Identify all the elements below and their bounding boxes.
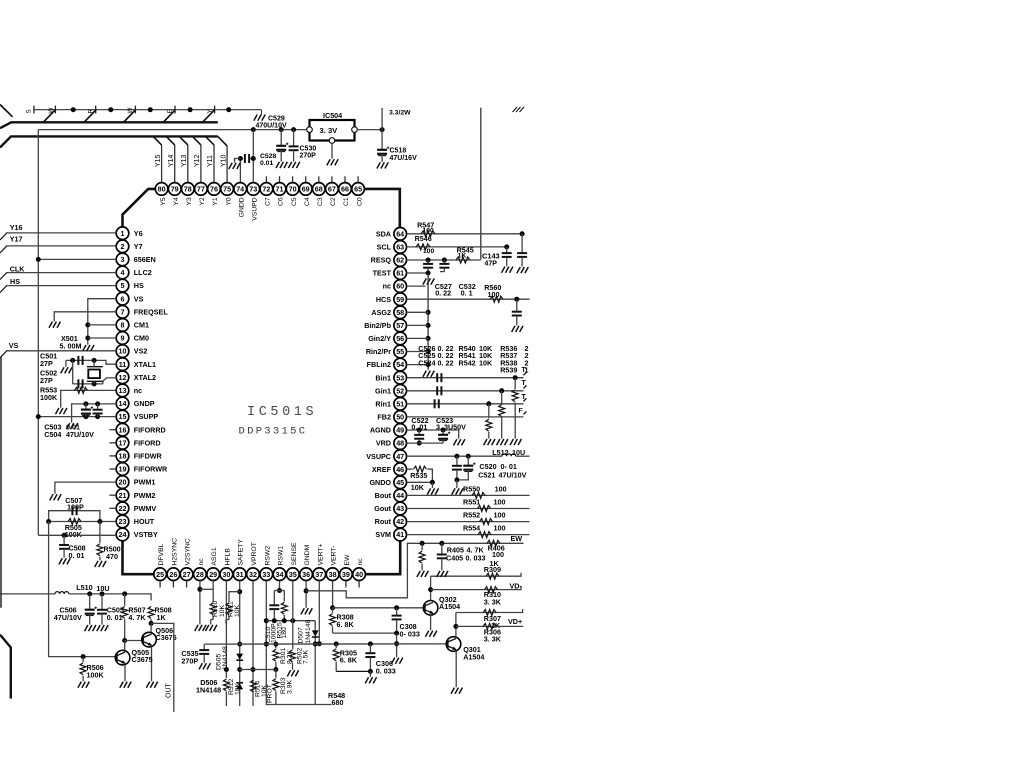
junction R301 bottom: [273, 667, 278, 672]
ground below IC504: [327, 159, 338, 165]
junction ladder pin55: [426, 349, 431, 354]
ground at right end of bus A: [254, 115, 265, 121]
wire C507 loop: [49, 511, 100, 522]
wire AGND pin49: [407, 430, 459, 439]
svg-text:0. 033: 0. 033: [466, 553, 486, 562]
pin 39: [340, 568, 353, 581]
svg-text:C6: C6: [278, 197, 285, 206]
svg-text:10U: 10U: [96, 584, 109, 593]
resistor R550 100: [472, 492, 485, 498]
pin 40: [353, 568, 366, 581]
wire vertical into pin 75: [226, 146, 228, 183]
svg-text:3. 3K: 3. 3K: [484, 635, 502, 644]
junction GNDD top: [238, 156, 243, 161]
ground below C535: [199, 663, 210, 669]
junction C306 bottom: [368, 669, 373, 674]
svg-text:SVM: SVM: [375, 530, 391, 539]
svg-text:R552: R552: [463, 511, 480, 520]
junction pin36: [304, 588, 309, 593]
pin 49: [394, 424, 407, 437]
wire R306 line: [456, 625, 523, 627]
resistor Gin1 pulldown (vertical): [499, 391, 505, 439]
svg-text:47U/10V: 47U/10V: [499, 470, 527, 479]
svg-text:VSUPD: VSUPD: [252, 197, 259, 221]
resistor R551 100: [478, 506, 491, 512]
pin 26 stub: [172, 581, 174, 588]
wire Rin2/Pr pin55: [407, 351, 429, 353]
svg-text:XTAL2: XTAL2: [134, 373, 156, 382]
svg-text:100P: 100P: [67, 503, 84, 512]
pin 13: [116, 384, 129, 397]
svg-text:71: 71: [276, 185, 284, 194]
svg-text:27P: 27P: [40, 359, 53, 368]
wire vertical into pin 76: [213, 145, 215, 183]
svg-text:68: 68: [315, 185, 323, 194]
junction R507 top: [122, 591, 127, 596]
svg-text:41: 41: [396, 530, 404, 539]
diode D506 1N4148: [236, 683, 243, 690]
wire pin24 VSTBY: [38, 534, 116, 536]
svg-text:14: 14: [119, 399, 127, 408]
resistor R303 3.9K (vertical): [273, 670, 279, 705]
ground below Q505: [120, 682, 131, 688]
bus entry diagonal A-B #5: [203, 110, 215, 123]
wire R305/C306 bottom bar: [336, 670, 370, 672]
svg-text:C5: C5: [291, 197, 298, 206]
junction C501 left: [70, 358, 75, 363]
svg-text:Y0: Y0: [225, 197, 232, 206]
resistor R545 1K: [456, 257, 470, 263]
wire pin9 CM0: [88, 337, 116, 339]
capacitor C502 27P: [78, 379, 82, 388]
svg-text:R551: R551: [463, 498, 480, 507]
wire FBLin2 pin54: [407, 364, 429, 366]
svg-text:3: 3: [121, 255, 125, 264]
ground below pin7: [49, 322, 60, 328]
ground below pin20: [50, 494, 61, 500]
ground below R510: [206, 625, 217, 631]
svg-text:FB2: FB2: [377, 413, 391, 422]
junction R305 top: [334, 641, 339, 646]
wire pin34 down: [279, 581, 281, 591]
svg-text:T: T: [522, 394, 527, 401]
pin tick on bus A #4: [134, 106, 136, 114]
pin 68: [313, 183, 326, 196]
junction C520/C521 bottom: [454, 477, 459, 482]
svg-text:76: 76: [210, 185, 218, 194]
capacitor C530 270P: [289, 146, 299, 150]
junction pin31 jog: [237, 589, 242, 594]
svg-text:SDA: SDA: [376, 229, 391, 238]
ground below C508: [59, 558, 70, 564]
svg-text:23: 23: [119, 517, 127, 526]
svg-text:270P: 270P: [300, 152, 317, 159]
svg-text:XREF: XREF: [372, 465, 392, 474]
wire bus D (thick) with left edge entry: [0, 136, 218, 147]
end tick Rin1: [524, 398, 527, 401]
svg-text:57: 57: [396, 321, 404, 330]
junction C x=293.6: [291, 127, 296, 132]
svg-text:100: 100: [423, 248, 435, 255]
svg-text:680: 680: [332, 698, 344, 707]
wire pin3 656EN to vertical: [38, 258, 116, 260]
wire to ground below C520: [456, 480, 458, 488]
svg-text:60: 60: [396, 282, 404, 291]
svg-text:FIFDWR: FIFDWR: [134, 452, 163, 461]
svg-text:HCS: HCS: [376, 295, 391, 304]
resistor R506 100K (vertical): [80, 657, 86, 682]
svg-text:180: 180: [281, 627, 288, 639]
svg-text:28: 28: [196, 570, 204, 579]
svg-text:D507: D507: [297, 627, 304, 643]
svg-text:4: 4: [121, 268, 125, 277]
wire L510 rail to corner: [69, 594, 151, 601]
capacitor on SDA (edge): [517, 234, 527, 267]
wire ladder vertical x=428: [427, 273, 429, 370]
svg-text:47U/10V: 47U/10V: [66, 430, 94, 439]
junction pin9 node: [85, 336, 90, 341]
junction Bin1 pulldown: [513, 375, 518, 380]
svg-text:Y3: Y3: [186, 197, 193, 206]
svg-text:4. 7K: 4. 7K: [128, 613, 146, 622]
svg-text:33: 33: [262, 570, 270, 579]
pin 56: [394, 332, 407, 345]
capacitor C308 0.033: [392, 608, 402, 633]
wire pin32 long vertical: [252, 581, 254, 706]
pin 20: [116, 476, 129, 489]
ground below SDA cap: [517, 267, 528, 273]
svg-text:RSW2: RSW2: [264, 546, 271, 566]
wire Q301 collector up: [455, 613, 457, 637]
svg-text:Y16: Y16: [10, 223, 23, 232]
wire pin36 net right with elbow: [306, 543, 523, 598]
svg-text:12: 12: [119, 373, 127, 382]
pin 42: [394, 515, 407, 528]
wire pin37 down: [318, 581, 320, 644]
svg-text:100: 100: [488, 290, 500, 299]
svg-text:L510: L510: [76, 583, 92, 592]
svg-text:R510: R510: [212, 601, 219, 617]
junction pin38: [330, 605, 335, 610]
pin 70: [286, 183, 299, 196]
pin 14: [116, 397, 129, 410]
wire pin36 down: [305, 581, 307, 608]
svg-text:Y14: Y14: [168, 154, 175, 167]
svg-text:GNDD: GNDD: [238, 197, 245, 217]
wire R552 line: [407, 521, 530, 523]
junction C521 top: [466, 454, 471, 459]
svg-text:C521: C521: [478, 470, 495, 479]
pin 77: [195, 183, 208, 196]
svg-text:24: 24: [119, 530, 127, 539]
svg-text:TEST: TEST: [373, 269, 392, 278]
wire OUT line: [151, 623, 174, 712]
svg-text:46: 46: [396, 465, 404, 474]
bus D diagonal to pin 77: [192, 136, 201, 145]
svg-text:270P: 270P: [181, 656, 198, 665]
wire C529 stem: [280, 130, 282, 145]
svg-text:0. 033: 0. 033: [376, 666, 396, 675]
ground below C306/R305: [365, 677, 376, 683]
capacitor C508 0.01: [59, 545, 69, 549]
svg-text:7: 7: [121, 307, 125, 316]
svg-text:VSUPC: VSUPC: [366, 452, 391, 461]
ground below Q506: [146, 682, 157, 688]
wire FB2 line: [407, 416, 524, 418]
IC501S body outline bottom-left corner: [123, 541, 154, 574]
svg-text:1K: 1K: [157, 613, 167, 622]
wire pin15 VSUPP: [38, 416, 116, 418]
regulator IC504 box: [310, 120, 355, 141]
svg-text:59: 59: [396, 295, 404, 304]
wire SCL line: [407, 246, 507, 248]
pin tick on bus A #3: [95, 106, 97, 114]
svg-text:470: 470: [106, 552, 118, 561]
svg-text:C4: C4: [304, 197, 311, 206]
svg-text:51: 51: [396, 399, 404, 408]
pin 21 stub: [110, 494, 117, 496]
bus entry diagonal A-B #4: [163, 110, 175, 123]
wire pin7 FREQSEL left: [54, 312, 116, 322]
wire Q506 collector: [150, 623, 152, 632]
wire C530 to ground: [293, 150, 295, 161]
svg-text:C7: C7: [265, 197, 272, 206]
wire vertical into pin 80: [161, 145, 163, 183]
svg-text:Y4: Y4: [173, 197, 180, 206]
svg-text:R554: R554: [463, 524, 480, 533]
pin 2: [116, 240, 129, 253]
resistor R512 10K (vertical): [223, 679, 229, 706]
wire GNDO to ground: [431, 482, 433, 488]
svg-text:R546: R546: [415, 234, 432, 243]
wire RESQ line: [407, 259, 481, 261]
wire C501 top rail: [66, 360, 116, 364]
svg-text:ASG1: ASG1: [211, 547, 218, 565]
wire long vertical x=480.8 (RESQ pullup net): [480, 108, 482, 260]
pin 63: [394, 241, 407, 254]
svg-text:T: T: [522, 367, 527, 374]
resistor R553: [75, 387, 88, 393]
capacitor C505 0.01: [97, 594, 107, 625]
wire after L512: [516, 455, 530, 457]
wire C508 stem: [63, 535, 65, 545]
svg-text:nc: nc: [357, 558, 364, 566]
svg-text:63: 63: [396, 243, 404, 252]
ground below C143: [502, 267, 513, 273]
continuation hatch mark top right: [513, 107, 525, 112]
junction C505 top: [100, 591, 105, 596]
svg-text:74: 74: [236, 185, 244, 194]
pin 27: [180, 568, 193, 581]
svg-text:DFVBL: DFVBL: [158, 543, 165, 565]
bus entry slant HS: [0, 286, 7, 293]
capacitor C528 (between GNDD and VSUPD): [245, 154, 249, 163]
wire pin14 GNDP: [72, 404, 117, 423]
svg-text:77: 77: [197, 185, 205, 194]
pin 1: [116, 227, 129, 240]
pin 64: [394, 228, 407, 241]
junction crystal top: [92, 358, 97, 363]
svg-text:47U/16V: 47U/16V: [390, 155, 418, 162]
capacitor on HCS net: [512, 299, 522, 325]
ground below pin36: [301, 608, 312, 614]
svg-text:Y15: Y15: [155, 154, 162, 167]
svg-text:IC504: IC504: [323, 111, 342, 120]
pin 65: [352, 183, 365, 196]
svg-text:C3: C3: [317, 197, 324, 206]
IC504 pin 3 terminal: [329, 138, 335, 144]
svg-text:70: 70: [289, 185, 297, 194]
svg-text:C3675: C3675: [132, 655, 153, 664]
svg-text:HOUT: HOUT: [134, 517, 155, 526]
svg-text:50: 50: [396, 413, 404, 422]
pin 34: [273, 568, 286, 581]
wire long rail y=644: [204, 643, 447, 645]
junction C510 bottom: [272, 618, 277, 623]
ground at GNDD: [229, 163, 240, 169]
junction pin35/line620: [290, 618, 295, 623]
ground below Q301: [451, 688, 462, 694]
svg-text:Y10: Y10: [220, 154, 227, 167]
junction R301/line644: [273, 642, 278, 647]
end tick FB2: [524, 411, 527, 414]
svg-text:67: 67: [328, 185, 336, 194]
svg-text:ASG2: ASG2: [371, 308, 391, 317]
svg-text:Rout: Rout: [375, 517, 392, 526]
resistor R309 1K: [486, 573, 499, 579]
svg-text:29: 29: [209, 570, 217, 579]
junction pin15/vertical: [36, 414, 41, 419]
svg-text:0. 01: 0. 01: [411, 423, 427, 432]
svg-text:10K: 10K: [234, 604, 241, 617]
junction C306 top: [368, 641, 373, 646]
junction ladder pin56: [426, 336, 431, 341]
capacitor C520 0.01: [452, 456, 462, 480]
wire Q505 collector: [124, 641, 126, 651]
svg-text:31: 31: [236, 570, 244, 579]
junction R405 top: [420, 541, 425, 546]
svg-text:PWMV: PWMV: [134, 504, 157, 513]
svg-text:5. 00M: 5. 00M: [60, 342, 82, 351]
svg-text:VERT+: VERT+: [317, 543, 324, 565]
left edge diagonal stub above bus B: [0, 105, 13, 117]
wire Bin1 line: [407, 377, 524, 379]
wire Y17 to pin 2: [6, 245, 116, 247]
pin 40 stub: [358, 581, 360, 588]
pin 76: [208, 183, 221, 196]
pin tick on bus A #1: [33, 106, 35, 114]
wire Q302 collector up: [430, 576, 432, 600]
pin 45: [394, 476, 407, 489]
svg-text:22: 22: [119, 504, 127, 513]
junction C x=281.2: [279, 127, 284, 132]
svg-text:3.9K: 3.9K: [287, 680, 294, 694]
svg-text:69: 69: [302, 185, 310, 194]
capacitor C532 (RESQ-TEST): [439, 260, 449, 272]
pin 15: [116, 410, 129, 423]
resistor R515 180 (vertical): [281, 591, 287, 621]
capacitor coupling Rin1: [435, 399, 439, 408]
svg-text:DDP3315C: DDP3315C: [239, 426, 308, 438]
svg-text:656EN: 656EN: [134, 255, 156, 264]
bus entry slant Y17: [0, 246, 7, 253]
wire corner from bus A down to ground: [261, 110, 263, 115]
svg-text:47U/10V: 47U/10V: [54, 613, 82, 622]
wire to ground below C306: [369, 671, 371, 676]
svg-text:EW: EW: [511, 534, 523, 543]
svg-text:1K: 1K: [490, 559, 500, 568]
svg-text:R550: R550: [463, 484, 480, 493]
ground below Gin1 pulldown: [497, 439, 508, 445]
capacitor coupling Bin1: [437, 373, 441, 382]
bus D diagonal to pin 76: [206, 136, 215, 145]
wire IC504 pin3 to ground: [331, 143, 333, 159]
junction C508 top: [62, 533, 67, 538]
resistor R405 4.7K (vertical): [419, 543, 425, 570]
svg-text:47P: 47P: [485, 261, 498, 268]
wire Gin2/Y pin56: [407, 337, 429, 339]
bus D diagonal to pin 78: [179, 136, 188, 145]
svg-text:nc: nc: [134, 386, 142, 395]
svg-text:VSUPP: VSUPP: [134, 412, 159, 421]
pin tick on bus A #2: [54, 106, 56, 114]
svg-text:PROT: PROT: [267, 684, 274, 703]
wire HS to pin 5: [6, 285, 116, 287]
junction C522 top: [417, 428, 422, 433]
svg-text:42: 42: [396, 517, 404, 526]
ground below AGND: [454, 439, 465, 445]
pin 16: [116, 423, 129, 436]
svg-text:A1504: A1504: [439, 602, 460, 611]
pin 6: [116, 292, 129, 305]
wire bus B (thick) with left edge entry: [0, 122, 218, 128]
svg-text:EW: EW: [344, 554, 351, 566]
resistor R547 100: [421, 231, 435, 237]
svg-text:1N4148: 1N4148: [196, 685, 221, 694]
ground below Q302: [425, 631, 436, 637]
junction crystal bottom: [92, 381, 97, 386]
transistor Q301 A1504: [446, 637, 461, 652]
ground below R500: [95, 561, 106, 567]
pin 53: [394, 371, 407, 384]
pin 10: [116, 345, 129, 358]
svg-text:Y2: Y2: [199, 197, 206, 206]
IC501S body outline top-right corner: [365, 189, 400, 228]
capacitor C306 0.033: [365, 644, 375, 672]
junction pin33/line620: [264, 618, 269, 623]
svg-text:GNDP: GNDP: [134, 399, 155, 408]
pin 38: [326, 568, 339, 581]
wire C535 to ground: [203, 654, 205, 663]
wire GNDO line: [407, 481, 433, 483]
pin 48: [394, 437, 407, 450]
junction SCL/C143: [504, 244, 509, 249]
resistor R308 6.8K (vertical): [330, 608, 336, 633]
pin 25: [154, 568, 167, 581]
wire left edge vertical (VS net): [0, 357, 2, 608]
svg-text:10K: 10K: [219, 604, 226, 617]
svg-text:45: 45: [396, 478, 404, 487]
svg-text:Rin2/Pr: Rin2/Pr: [366, 347, 391, 356]
svg-text:GNDO: GNDO: [369, 478, 391, 487]
wire VD- line: [431, 586, 521, 589]
svg-text:LLC2: LLC2: [134, 268, 152, 277]
junction C506 top: [87, 591, 92, 596]
junction on bus A #2: [108, 107, 113, 112]
wire x=48.6 vertical to Q505 base: [49, 522, 116, 657]
pin 58: [394, 306, 407, 319]
wire vertical into pin 78: [187, 145, 189, 183]
